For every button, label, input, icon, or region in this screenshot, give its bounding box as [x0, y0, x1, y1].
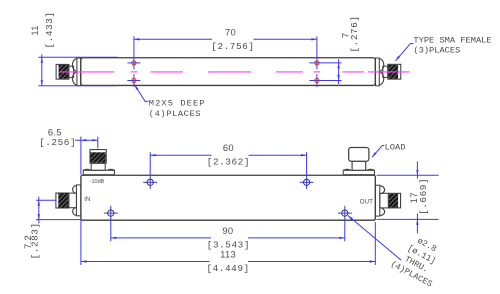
svg-text:(3)PLACES: (3)PLACES — [413, 46, 460, 56]
svg-text:11: 11 — [29, 25, 40, 35]
dim 70 extension line left — [133, 36, 135, 69]
label hole dia (rotated) — [389, 230, 450, 290]
svg-text:113: 113 — [220, 249, 236, 260]
svg-text:-10dB: -10dB — [90, 179, 105, 185]
svg-text:(4)PLACES: (4)PLACES — [149, 109, 201, 119]
dim 6.5 dimension line — [75, 139, 98, 141]
dim 60 dimension line — [150, 154, 211, 156]
hole bottom view bottom-right — [342, 210, 348, 216]
top view left connector flange bump bottom — [72, 72, 77, 85]
in connector bump top — [73, 186, 77, 194]
coupled port flange band — [83, 170, 114, 174]
label TYPE SMA FEMALE — [149, 36, 492, 119]
hole bottom view top-left — [147, 179, 153, 185]
out connector shoulder — [380, 193, 389, 208]
leader hole dia — [348, 216, 401, 261]
dim 7.2 dimension line — [38, 197, 40, 224]
out connector bump top — [380, 186, 385, 194]
svg-text:[.283]: [.283] — [30, 222, 41, 259]
arrow 7.2 up — [38, 200, 40, 206]
arrow 11 up — [41, 57, 43, 63]
svg-text:TYPE SMA FEMALE: TYPE SMA FEMALE — [413, 36, 491, 46]
coupled port nut — [90, 150, 106, 164]
svg-text:OUT: OUT — [360, 198, 373, 205]
hole bottom view top-right — [304, 179, 310, 185]
coupled port connector (top, -10dB) — [83, 150, 114, 175]
dim 11 dimension line — [41, 54, 43, 85]
arrow 70 right — [311, 38, 317, 40]
arrow 113 left — [81, 260, 87, 262]
blue dimension work, bottom view — [36, 137, 439, 265]
crosshair hole bottom-right — [316, 74, 318, 87]
centerline (magenta) — [60, 71, 410, 73]
out connector bump bottom — [380, 208, 385, 216]
svg-text:60: 60 — [223, 142, 234, 153]
top view body — [81, 58, 376, 86]
arrow 113 right — [370, 260, 376, 262]
ext line coupled port center — [97, 137, 99, 149]
ext line body left edge (x=80.9) — [80, 137, 82, 175]
IN connector (left) — [56, 185, 81, 216]
arrowhead leader load — [372, 152, 377, 157]
arrowhead leader hole dia — [348, 216, 353, 220]
arrow 6.5 left — [81, 139, 87, 141]
svg-text:LOAD: LOAD — [385, 142, 406, 152]
crosshair hole top-left — [143, 181, 157, 183]
svg-text:6.5: 6.5 — [48, 126, 62, 137]
arrow 70 left — [134, 38, 140, 40]
arrow 7 down — [337, 75, 339, 81]
load flange band — [343, 170, 374, 174]
arrowhead leader TYPE SMA — [395, 56, 400, 61]
load cap — [349, 148, 369, 162]
leader load — [372, 146, 385, 158]
arrow 7 up — [337, 63, 339, 69]
in connector band — [76, 185, 81, 216]
leader M2X5 — [134, 85, 148, 102]
top view right connector flange band — [376, 58, 380, 86]
dim 17 dimension line — [416, 162, 418, 179]
arrow 90 right — [339, 237, 345, 239]
coupled port flange bump right — [107, 168, 114, 171]
svg-text:M2X5 DEEP: M2X5 DEEP — [149, 98, 206, 108]
hole top-left pair (red) — [132, 61, 136, 65]
out connector band — [375, 185, 379, 216]
svg-text:[4.449]: [4.449] — [206, 263, 249, 274]
dim 70 extension line right — [316, 36, 318, 69]
arrow 60 right — [301, 154, 307, 156]
arrowhead leader M2X5 — [134, 85, 138, 90]
arrow 17 bottom (points up) — [416, 219, 418, 225]
top view right connector shoulder — [383, 66, 388, 77]
dim 17 extension lines — [377, 174, 439, 176]
arrow 90 left — [111, 237, 117, 239]
top view left connector shoulder — [69, 66, 74, 77]
dim 7.2 extension lines — [36, 199, 57, 201]
dim 7 extension lines — [309, 62, 341, 64]
svg-text:[.276]: [.276] — [349, 15, 360, 52]
top view left connector flange band — [77, 58, 81, 86]
load termination (top right) — [343, 148, 374, 175]
svg-text:IN: IN — [84, 197, 90, 203]
label LOAD — [385, 142, 406, 152]
svg-text:[2.756]: [2.756] — [211, 41, 254, 52]
dim 60 extension lines — [149, 152, 151, 189]
dim 113 dimension line — [81, 261, 210, 263]
hole bottom view bottom-left — [108, 210, 114, 216]
dim 90 dimension line — [111, 237, 211, 239]
text dim 11 (rotated) — [29, 11, 360, 52]
arrow 11 down — [41, 80, 43, 86]
dim 70 dimension line — [134, 38, 212, 40]
top view right connector flange bump top — [379, 59, 383, 72]
coupled port shoulder — [91, 163, 105, 170]
load neck — [352, 161, 366, 170]
in connector bump bottom — [73, 208, 77, 216]
svg-text:90: 90 — [222, 225, 233, 236]
top view left connector flange bump top — [72, 59, 77, 72]
out connector nut — [388, 193, 400, 208]
dim 90 extension lines — [110, 206, 112, 242]
crosshair hole top-right — [300, 181, 314, 183]
in connector shoulder — [69, 193, 77, 208]
text dim 6.5 — [22, 126, 429, 274]
crosshair hole bottom-right — [338, 212, 352, 214]
top view right connector flange bump bottom — [379, 72, 384, 85]
crosshair hole bottom-left — [104, 212, 118, 214]
coupled port flange bump left — [84, 169, 91, 170]
svg-text:[.669]: [.669] — [418, 178, 429, 215]
bottom view body — [81, 175, 375, 220]
arrow 60 left — [150, 154, 156, 156]
dim 11 extension lines — [38, 56, 118, 58]
svg-text:70: 70 — [225, 26, 236, 37]
arrow 17 top (points down) — [416, 170, 418, 176]
load flange bump left — [344, 169, 351, 170]
in connector nut — [56, 193, 69, 208]
arrow 6.5 right — [92, 139, 98, 141]
crosshair hole top-left — [127, 62, 140, 64]
hole top-right pair (red) — [315, 61, 319, 65]
dim 7 dimension line — [338, 59, 340, 84]
svg-text:[.433]: [.433] — [44, 11, 55, 48]
top view right SMA connector nut — [388, 64, 401, 79]
svg-text:[.256]: [.256] — [39, 137, 76, 148]
dim 113 extension line right — [374, 222, 376, 265]
arrow 7.2 down — [38, 214, 40, 220]
blue dimension work, top view — [38, 36, 413, 101]
svg-text:[2.362]: [2.362] — [207, 157, 250, 168]
top view left SMA connector nut — [56, 64, 69, 79]
load flange bump right — [367, 169, 374, 170]
crosshair hole bottom-left — [127, 80, 140, 82]
leader TYPE SMA — [395, 44, 413, 61]
OUT connector (right) — [375, 185, 400, 216]
